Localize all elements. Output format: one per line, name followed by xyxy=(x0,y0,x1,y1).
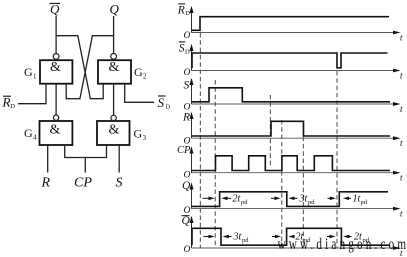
waveform RD-bar xyxy=(192,17,389,31)
svg-text:pd: pd xyxy=(241,199,248,206)
waveform R xyxy=(192,121,390,136)
label RD-bar row1 xyxy=(177,4,190,17)
svg-text:R: R xyxy=(182,112,190,124)
svg-text:R: R xyxy=(41,176,51,191)
dashed guide line 1 xyxy=(199,33,201,248)
svg-text:t: t xyxy=(400,104,403,114)
axis row Q xyxy=(190,182,404,218)
svg-text:O: O xyxy=(184,31,191,41)
label G3 xyxy=(134,127,147,143)
svg-text:&: & xyxy=(109,60,120,75)
svg-text:D: D xyxy=(166,104,171,111)
svg-text:&: & xyxy=(50,60,61,75)
svg-text:O: O xyxy=(184,245,191,255)
wire SD input xyxy=(125,85,154,103)
value label 2tpd right row Q-bar xyxy=(354,232,370,245)
waveform SD-bar xyxy=(192,53,388,68)
svg-text:pd: pd xyxy=(242,237,249,244)
axis row S xyxy=(190,78,404,114)
svg-text:3t: 3t xyxy=(299,194,308,205)
label SD-bar xyxy=(158,95,171,111)
dashed guide line 3 xyxy=(269,95,271,168)
gate G1 xyxy=(40,54,72,84)
label SD-bar row2 xyxy=(179,42,190,56)
dimension arrow pair 2tpd mid row Q-bar xyxy=(272,235,295,239)
svg-text:D: D xyxy=(185,49,190,56)
wire RD input xyxy=(18,85,46,104)
axis row CP xyxy=(190,146,404,182)
svg-text:pd: pd xyxy=(308,199,315,206)
wire Q vertical xyxy=(113,16,115,54)
svg-text:CP: CP xyxy=(177,145,191,156)
waveform Q xyxy=(192,192,388,207)
gate G2 xyxy=(98,54,131,84)
axis row Q-bar xyxy=(190,216,404,257)
dashed guide line 2 xyxy=(214,80,216,248)
value label 2tpd mid row Q-bar xyxy=(296,232,312,245)
wire cross feedback from Q to G1 input xyxy=(66,36,113,99)
svg-text:G: G xyxy=(24,65,33,79)
svg-text:&: & xyxy=(109,123,120,138)
dimension arrow pair 2tpd right row Q-bar xyxy=(327,235,352,239)
svg-text:3: 3 xyxy=(143,134,147,142)
node Q̄ xyxy=(50,2,61,17)
svg-text:2t: 2t xyxy=(233,194,241,205)
svg-text:S: S xyxy=(158,95,165,110)
axis row RD-bar xyxy=(190,6,404,43)
dimension arrow pair 1tpd row Q xyxy=(328,197,352,201)
svg-text:t: t xyxy=(400,209,403,219)
svg-text:Q: Q xyxy=(110,2,120,17)
svg-text:1t: 1t xyxy=(353,194,361,205)
axis row SD-bar xyxy=(190,44,404,81)
wire G3 output to G2 xyxy=(113,85,115,116)
waveform Q-bar xyxy=(192,228,390,245)
wire S input xyxy=(118,146,120,173)
svg-text:t: t xyxy=(400,173,403,183)
svg-text:&: & xyxy=(50,123,61,138)
label Q-bar row7 xyxy=(182,215,191,227)
svg-text:D: D xyxy=(10,103,15,110)
dashed guide line 4 xyxy=(281,120,283,248)
svg-text:S: S xyxy=(184,80,190,92)
svg-text:O: O xyxy=(184,68,191,78)
svg-text:t: t xyxy=(400,138,403,148)
dashed guide line 5 xyxy=(302,122,304,248)
svg-text:t: t xyxy=(400,71,403,81)
svg-text:t: t xyxy=(400,33,403,43)
svg-text:Q: Q xyxy=(182,180,191,192)
value label 2tpd row Q xyxy=(233,194,249,207)
waveform CP xyxy=(192,156,390,171)
svg-text:pd: pd xyxy=(361,199,368,206)
dimension arrow pair 3tpd row Q xyxy=(271,197,298,201)
axis row R xyxy=(190,112,404,148)
wire Q-bar vertical xyxy=(55,16,57,54)
svg-text:R: R xyxy=(2,95,11,110)
svg-text:G: G xyxy=(134,65,143,79)
svg-text:G: G xyxy=(24,126,33,140)
svg-text:www.diangon.com: www.diangon.com xyxy=(278,235,407,252)
waveform S xyxy=(192,88,390,102)
svg-text:R: R xyxy=(177,5,185,17)
value label 1tpd row Q xyxy=(353,194,368,207)
value label 3tpd row Q-bar xyxy=(233,232,250,245)
label G1 xyxy=(24,65,37,81)
svg-text:3t: 3t xyxy=(233,232,242,243)
label RD-bar xyxy=(2,95,16,110)
svg-text:D: D xyxy=(185,10,190,17)
dashed guide line 6 xyxy=(336,71,338,248)
svg-text:S: S xyxy=(179,43,185,55)
gate G3 xyxy=(97,115,130,145)
svg-text:2: 2 xyxy=(143,73,147,81)
wire R input xyxy=(47,146,49,173)
svg-text:G: G xyxy=(134,127,143,141)
wire cross feedback from Q-bar to G2 input xyxy=(56,36,103,99)
svg-text:1: 1 xyxy=(33,73,37,81)
label G2 xyxy=(134,65,147,81)
wire G4 output to G1 xyxy=(55,85,57,115)
dimension arrow pair 3tpd row Q-bar xyxy=(204,235,232,239)
svg-text:S: S xyxy=(116,176,123,191)
label G4 xyxy=(24,126,37,142)
dimension arrow pair 2tpd row Q xyxy=(203,197,232,201)
svg-text:CP: CP xyxy=(74,176,92,191)
svg-text:4: 4 xyxy=(33,134,37,142)
svg-text:Q: Q xyxy=(182,215,191,227)
wire CP bus xyxy=(65,146,107,173)
node Q xyxy=(110,2,120,17)
value label 3tpd row Q xyxy=(299,194,316,207)
gate G4 xyxy=(40,115,73,145)
